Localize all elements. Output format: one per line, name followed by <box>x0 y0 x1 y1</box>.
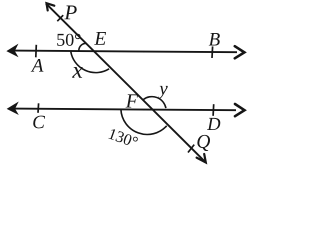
angle arc 50deg at E <box>79 43 87 51</box>
node F <box>126 94 138 107</box>
node D <box>207 118 220 130</box>
node A <box>31 59 44 72</box>
node P <box>64 6 76 20</box>
tick at B <box>211 46 214 58</box>
tick near Q <box>188 145 194 153</box>
label y <box>158 86 168 99</box>
tick near P <box>57 15 63 21</box>
arrowhead CD left <box>8 103 18 114</box>
node C <box>33 116 45 129</box>
arrowhead P <box>47 3 55 10</box>
tick at A <box>35 45 38 58</box>
angle arc 130deg at F <box>121 109 167 134</box>
wire line AB <box>13 51 237 53</box>
node B <box>209 33 220 45</box>
tick at D <box>212 104 215 116</box>
wire transversal PQ <box>46 3 206 162</box>
angle arc x at E <box>71 52 109 73</box>
tick at C <box>37 103 40 113</box>
label 130deg <box>108 128 138 148</box>
arrowhead Q <box>197 154 206 163</box>
label 50deg <box>57 34 80 46</box>
wire line CD <box>13 109 236 111</box>
arrowhead AB left <box>7 45 17 56</box>
angle arc y at F <box>143 97 166 108</box>
label x <box>72 67 83 78</box>
arrowhead AB right <box>235 46 245 58</box>
node E <box>94 32 106 45</box>
node Q <box>197 135 210 151</box>
arrowhead CD right <box>235 104 245 116</box>
